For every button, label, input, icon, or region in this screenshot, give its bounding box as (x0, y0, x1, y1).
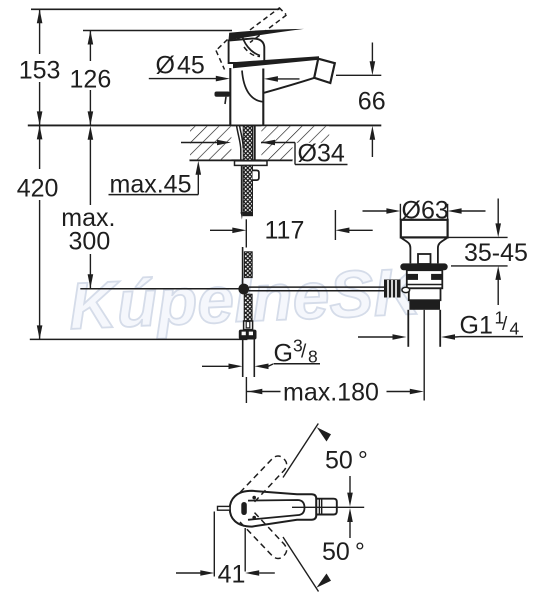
watermark KupelneSK (67, 254, 426, 343)
plug stem (418, 254, 431, 264)
50 degree line lower (283, 537, 319, 592)
deck hatched section right of faucet (261, 126, 329, 159)
dimension 35-45 arrows (497, 199, 499, 225)
axis arrow lower (349, 519, 351, 538)
dimension 420 vertical line with arrows (39, 125, 41, 169)
dark joint band / spout top edge (233, 56, 319, 68)
svg-text:G1: G1 (460, 312, 493, 340)
leader step to label 34 (294, 143, 296, 165)
axis arrow upper (349, 476, 351, 495)
dimension 153 vertical line with arrows (39, 9, 41, 54)
horizontal pop-up rod right arm (249, 286, 385, 288)
waste body (407, 270, 443, 288)
top view outer outline (230, 491, 316, 527)
faucet body outline (230, 68, 263, 125)
arc arrow lower (316, 574, 331, 588)
waste plug top (401, 220, 448, 238)
waste flange (400, 263, 447, 270)
plug neck curves (401, 237, 411, 263)
svg-text:126: 126 (70, 66, 112, 94)
extension lines 35-45 (448, 236, 508, 238)
svg-text:Ø34: Ø34 (298, 140, 345, 168)
svg-text:66: 66 (358, 88, 386, 116)
pop-up rod curving through deck (237, 126, 241, 160)
faucet lever blade closed position (229, 29, 305, 40)
svg-text:153: 153 (19, 57, 61, 85)
horizontal pop-up rod left arm (80, 288, 238, 290)
svg-text:max.180: max.180 (283, 378, 379, 406)
dashed lever swung down (240, 512, 287, 559)
reference line top of closed lever (83, 30, 232, 32)
threaded stud through deck (243, 126, 252, 160)
top view lever inner outline (248, 500, 305, 520)
pivot rod ball seat (402, 287, 410, 292)
svg-text:117: 117 (265, 217, 305, 245)
dimension 41 arrows (176, 572, 201, 574)
extension lines 41 (213, 512, 215, 577)
rod line upper (242, 247, 244, 285)
pivot ball joint (238, 284, 249, 295)
reference line for 420 at hose end (30, 338, 248, 340)
svg-text:420: 420 (17, 175, 59, 203)
deck hatched section left of faucet (190, 126, 231, 159)
top view cartridge slot (241, 502, 247, 515)
dimension 126 vertical line with arrows (89, 31, 91, 62)
svg-text:50 °: 50 ° (325, 447, 368, 475)
reference line top of open lever (31, 8, 280, 10)
dimension 117 arrows (210, 229, 233, 231)
svg-text:/: / (301, 341, 307, 362)
faucet cartridge housing (229, 39, 265, 63)
waste body lower (409, 288, 441, 300)
braided hose lower section (244, 294, 252, 321)
braided hose upper section (244, 252, 252, 278)
shank right wall (254, 126, 256, 160)
top view pop-up rod stub (218, 506, 231, 510)
mounting washer under deck (235, 161, 268, 166)
50 degree line upper (283, 424, 318, 478)
deck bottom line (190, 159, 296, 161)
hose nipple (253, 170, 259, 180)
pop-up rod below deck (241, 165, 243, 214)
pivot rod nut (384, 280, 401, 298)
dimension max.300 vertical line with arrows (89, 131, 91, 205)
hose lower connector (244, 321, 253, 330)
dimension 34 arrows at deck hole (181, 142, 217, 144)
dimension G1 1/4 arrows (358, 336, 393, 338)
svg-text:50 °: 50 ° (322, 538, 365, 566)
svg-text:35-45: 35-45 (464, 239, 528, 267)
dimension 45 leader arrows (149, 78, 216, 80)
axis centre line (292, 506, 364, 508)
svg-text:/: / (502, 314, 508, 335)
tailpipe (407, 310, 409, 347)
G3/8 thread tube (242, 340, 244, 378)
svg-text:4: 4 (510, 319, 520, 339)
dimension 66 vertical arrows (371, 43, 373, 63)
leader max.45 up arrow to deck underside (197, 172, 199, 195)
open lever dashed outline (216, 40, 228, 51)
extension line hose end (245, 377, 247, 403)
label box clearing for diameter 34 (293, 143, 349, 164)
waste centre line (423, 310, 425, 401)
dimension 63 arrows (363, 210, 387, 212)
extension line spout outlet (334, 210, 336, 240)
dimension G3/8 arrows (202, 365, 229, 367)
svg-text:41: 41 (218, 560, 246, 588)
arc arrow upper (317, 427, 331, 441)
extension lines plug top (399, 204, 401, 220)
pop-up knob on body (215, 92, 231, 97)
extension line faucet centre (245, 219, 247, 247)
housing front curve (242, 33, 261, 56)
dimension max.180 (246, 391, 259, 393)
spout bottom edge (264, 78, 315, 93)
spout outlet reference line (336, 74, 381, 76)
G3/8 connection nut (239, 330, 257, 340)
svg-text:300: 300 (69, 227, 111, 255)
deck top surface line (28, 124, 382, 126)
shank end cap (243, 212, 253, 216)
dashed lever swung up (240, 456, 287, 503)
body front curve (242, 71, 263, 102)
svg-text:Ø 45: Ø 45 (156, 52, 205, 80)
open lever dashed arc (244, 47, 260, 57)
aerator end piece (314, 59, 335, 83)
top view handle end cylinder (316, 499, 337, 515)
threaded shank below deck (243, 165, 252, 212)
